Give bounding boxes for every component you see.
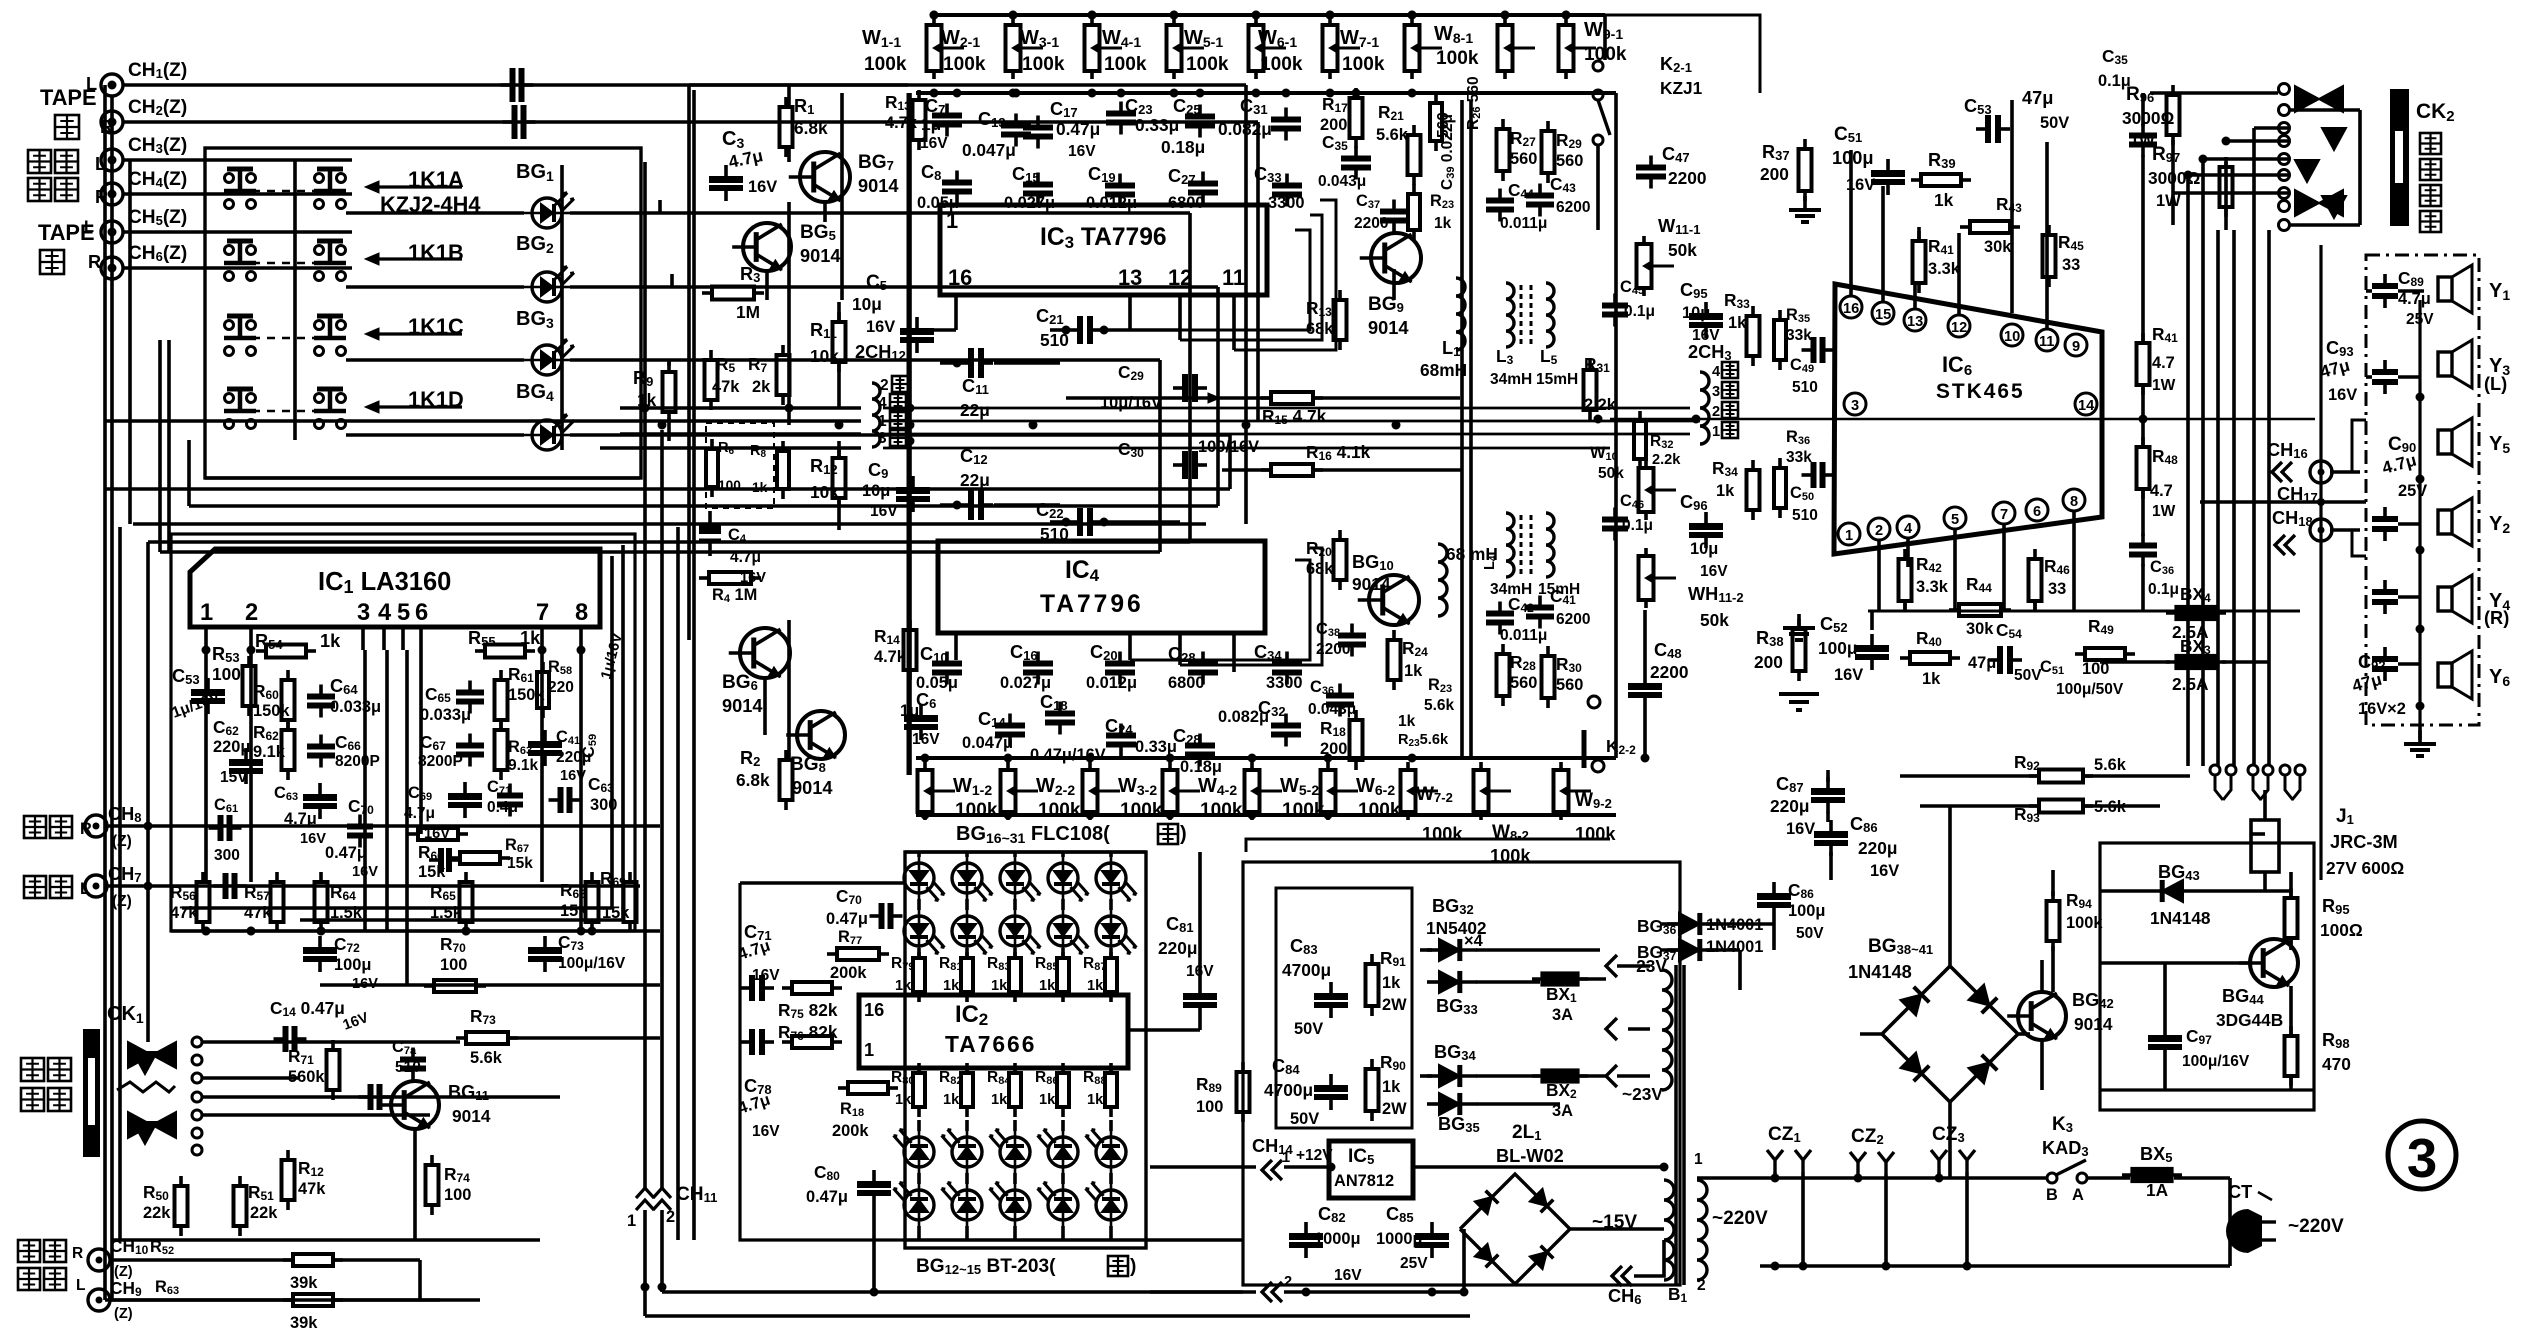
svg-text:(Z): (Z) [112,833,132,850]
svg-text:6: 6 [415,600,428,626]
svg-text:100: 100 [1196,1098,1223,1116]
svg-text:BL-W02: BL-W02 [1496,1146,1564,1166]
svg-text:0.1μ: 0.1μ [2148,581,2179,598]
capacitor C54 [1988,658,2000,662]
capacitor C_{33} [1285,174,1289,186]
capacitor C89 [2383,274,2387,286]
wire top right link [1566,15,1760,93]
pin 7 IC6b [1993,502,2015,524]
capacitor C66 [319,735,323,747]
resistor R19 [1338,290,1342,300]
wire led col2 3 [1061,1068,1065,1073]
fuse BX3 [2166,660,2226,664]
wire cz drops [1773,1172,1777,1178]
svg-text:1k: 1k [895,1092,912,1108]
wire ic6 pin ups [1849,150,1853,296]
svg-text:30k: 30k [1984,238,2012,256]
ground speaker [2418,726,2422,740]
potentiometer W7-2 [1406,762,1410,770]
pin 15 IC6 [1872,302,1894,324]
resistor R88 [1109,1063,1113,1073]
wire speaker caps [2398,289,2424,293]
wire box right edge [840,93,844,300]
mic plug triangles1 [128,1042,152,1068]
wire top bus2 [916,91,1616,95]
potentiometer W4-1 [1172,17,1176,25]
capacitor C_{28b} [1198,734,1202,746]
resistor R13 [917,90,921,100]
svg-text:15: 15 [1875,307,1891,323]
svg-text:2W: 2W [1382,996,1407,1014]
wire IC4 loops [1130,560,1310,660]
tap 23V mid [1606,1018,1617,1040]
svg-text:4: 4 [1712,364,1721,380]
capacitor C73 [543,936,547,947]
svg-text:100: 100 [212,664,241,684]
svg-text:0.47μ/16V: 0.47μ/16V [1030,746,1106,764]
svg-text:27V 600Ω: 27V 600Ω [2326,858,2404,878]
winding 23V [1662,970,1672,1090]
wire c80 drop [872,1206,876,1292]
resistor R89 [1241,1062,1245,1072]
pin 1 IC6b [1838,523,1860,545]
svg-text:1k: 1k [320,631,341,651]
svg-text:16V: 16V [1786,820,1815,838]
svg-text:100μ/50V: 100μ/50V [2056,681,2124,698]
wire IC4 pins [954,633,958,660]
svg-text:16V×2: 16V×2 [2358,700,2406,718]
svg-text:100k: 100k [1575,824,1616,844]
svg-text:(L): (L) [2484,374,2507,394]
resistor R65 [464,872,468,882]
wire c48 [1643,610,1647,672]
svg-text:1k: 1k [991,978,1008,994]
resistor R55 [475,649,485,653]
wire 220 bus top [1697,1176,2046,1180]
inductor L6 [1546,513,1554,577]
LED BG13a [952,1137,982,1167]
capacitor C_{14} [1008,714,1012,726]
resistor R45 [2047,225,2051,235]
capacitor C_{8} [955,171,959,183]
svg-text:50V: 50V [1796,925,1824,942]
capacitor C_{25} [1198,105,1202,117]
potentiometer W3-2 [1088,762,1092,770]
connector CH6 [101,257,123,279]
potentiometer W9-2 [1559,762,1563,770]
svg-text:220μ: 220μ [1770,796,1809,816]
svg-text:5.6k: 5.6k [1424,697,1455,714]
switch 1K1B right [315,272,324,281]
svg-text:8: 8 [2070,494,2078,510]
resistor R54 [256,649,266,653]
switch 1K1A right [315,200,324,209]
capacitor C38 [1350,624,1354,636]
svg-text:100k: 100k [1200,800,1243,821]
resistor R23 [1412,184,1416,194]
label tape-out hanzi [55,115,79,139]
wire ic2 right [1128,1028,1200,1032]
capacitor C_{20} [1118,652,1122,664]
inductor L2 [1438,544,1447,616]
capacitor C_{28} [1201,652,1205,664]
svg-text:1k: 1k [1728,314,1747,332]
pin 4 IC6b [1897,516,1919,538]
transistor BG7 [800,152,850,202]
potentiometer W2-2 [1006,762,1010,770]
svg-text:50V: 50V [1290,1110,1319,1128]
svg-text:220μ: 220μ [213,738,250,756]
svg-text:560: 560 [1510,150,1537,168]
svg-text:100μ/16V: 100μ/16V [558,955,626,972]
svg-text:1k: 1k [752,480,768,495]
label phono hanzi [24,816,46,838]
svg-text:16V: 16V [2328,386,2357,404]
pin 13 IC6 [1904,309,1926,331]
LED BG2 [532,272,562,302]
capacitor C90 [2383,507,2387,519]
svg-text:~23V: ~23V [1622,1084,1663,1104]
svg-text:16V: 16V [424,826,450,842]
svg-text:0.033μ: 0.033μ [420,706,471,724]
resistor R16 [1261,468,1271,472]
relay contacts [2210,765,2220,775]
svg-text:0.047μ: 0.047μ [962,734,1013,752]
svg-text:100μ: 100μ [1788,902,1825,920]
resistor R82 [965,1063,969,1073]
svg-text:200: 200 [1320,740,1347,758]
capacitor C_{7} [945,104,949,116]
wire r15 [1066,396,1270,400]
svg-text:16V: 16V [870,503,898,520]
svg-text:50k: 50k [1668,240,1697,260]
capacitor C72 [318,936,322,947]
wire c12 [940,503,958,507]
svg-text:16V: 16V [752,967,780,984]
resistor R5 [709,350,713,360]
svg-text:2: 2 [1697,1277,1706,1294]
connector CH5 [101,221,123,243]
resistor R96 [2171,85,2175,95]
wire led3 [346,358,524,362]
label CH11 [636,1188,654,1198]
svg-text:50k: 50k [1598,465,1624,482]
wire bundle v2 [676,527,680,1240]
svg-text:9014: 9014 [2074,1014,2113,1034]
svg-text:5: 5 [1951,512,1959,528]
svg-text:15k: 15k [560,902,588,920]
wire left col [146,931,150,1042]
capacitor C_{16} [1036,652,1040,664]
resistor R41b [2141,333,2145,343]
wire bottom rail [2100,1264,2230,1268]
svg-text:(Z): (Z) [112,893,132,910]
transistor BG42 [2018,992,2066,1040]
svg-text:(Z): (Z) [114,1306,133,1322]
svg-text:30k: 30k [1966,620,1994,638]
svg-text:3DG44B: 3DG44B [2216,1010,2283,1030]
resistor R24 [1392,630,1396,640]
wire led top rail [905,850,1146,854]
svg-text:0.082μ: 0.082μ [1218,119,1272,139]
wire bg9 links [1392,269,1396,300]
svg-text:TA7666: TA7666 [945,1031,1036,1057]
resistor R87 [1109,948,1113,958]
svg-text:9014: 9014 [1368,318,1409,338]
potentiometer W2-1 [1011,17,1015,25]
svg-text:100k: 100k [864,54,907,75]
switch K2-2 [1588,696,1600,708]
svg-text:2200: 2200 [1354,215,1388,232]
relay box [2100,843,2314,1110]
capacitor C70 [870,914,882,918]
wire led col 3 [1061,852,1065,857]
capacitor C29 [1173,386,1185,390]
wire mid bus3 [620,432,861,436]
LED BG19 [1048,863,1078,893]
svg-text:CT: CT [2228,1182,2252,1202]
svg-text:4700μ: 4700μ [1282,960,1331,980]
svg-text:3300: 3300 [1268,194,1304,212]
LED BG14b [1000,1190,1030,1220]
svg-text:1K1C: 1K1C [408,314,464,339]
svg-text:0.082μ: 0.082μ [1218,708,1269,726]
svg-text:220μ: 220μ [1858,838,1897,858]
svg-text:9014: 9014 [792,778,833,798]
svg-text:3300: 3300 [1266,674,1302,692]
svg-text:0.011μ: 0.011μ [1500,627,1547,644]
svg-text:R26 560: R26 560 [1465,76,1483,130]
svg-text:14: 14 [2078,398,2095,414]
svg-text:1K1D: 1K1D [408,387,464,412]
transformer B1 secondary 15V [1664,1180,1674,1280]
resistor R68 [590,872,594,882]
wire c21 [1050,328,1066,332]
svg-text:0.1μ: 0.1μ [1622,517,1653,534]
svg-text:1: 1 [200,600,213,626]
switch 1K1C left [225,347,234,356]
connector CH16 [2310,461,2332,483]
connector CH8 [85,815,107,837]
wire CH3 to box [123,158,352,162]
jack CK2 body [2390,89,2409,226]
wire relay wires [2100,889,2160,893]
wire 220 bus bot [1760,1264,2100,1268]
svg-text:16V: 16V [752,1123,780,1140]
wire bottom long [662,1290,1243,1293]
wire speaker tops [2366,289,2372,293]
capacitor C_{19} [1118,174,1122,186]
wire mic wires [202,1040,460,1044]
diode BG43 [2171,889,2183,893]
svg-text:B: B [2046,1186,2058,1204]
svg-text:33k: 33k [1786,327,1812,344]
svg-text:15V: 15V [220,769,248,786]
potentiometer W3-1 [1090,17,1094,25]
resistor R66 [408,832,418,836]
wire 23V taps [1628,1027,1650,1031]
svg-text:7: 7 [2000,507,2008,523]
svg-text:A: A [2072,1186,2084,1204]
wire led4 [346,433,524,437]
wire to plug [2088,1176,2130,1180]
svg-text:47μ: 47μ [1968,654,1996,672]
resistor R27 [1501,119,1505,129]
wire left bundle v1 [643,162,647,410]
capacitor C12 [959,503,971,507]
svg-text:100k: 100k [943,54,986,75]
wire bundle v3 [692,90,696,1240]
potentiometer W11-1 [1642,236,1646,244]
wire CH2 line [123,120,1258,124]
wire IC1 outer loop [171,534,635,931]
resistor R17 [1354,88,1358,98]
wire r92 links [1900,774,2038,778]
label tape-in hanzi [40,250,64,274]
connector CH9 [88,1289,110,1311]
resistor R91 [1370,954,1374,964]
inductor L5 [1546,283,1554,347]
svg-text:100: 100 [444,1186,471,1204]
svg-text:47k: 47k [244,904,272,922]
resistor R81 [965,948,969,958]
svg-text:4700μ: 4700μ [1264,1080,1313,1100]
diode BG35 [1427,1102,1439,1106]
svg-text:1k: 1k [1434,215,1452,232]
svg-text:560: 560 [1510,674,1537,692]
resistor R73 [456,1036,466,1040]
capacitor C37 [1392,200,1396,212]
svg-text:IC1 LA3160: IC1 LA3160 [318,568,451,597]
wire ic6 pin drops [1877,540,1881,611]
svg-text:1k: 1k [1934,190,1954,210]
outlet CZ2 [1856,1162,1859,1174]
capacitor C65 [468,681,472,693]
resistor R86 [1061,1063,1065,1073]
resistor R11 [837,312,841,322]
svg-text:10μ: 10μ [1690,540,1718,558]
svg-text:2: 2 [880,377,889,394]
resistor R32 [1638,411,1642,421]
gnd C52b [1779,694,1819,710]
svg-text:BG12~15 BT-203(: BG12~15 BT-203( [916,1256,1056,1277]
svg-text:2200: 2200 [1650,662,1688,682]
switch 1K1D left [225,420,234,429]
svg-text:2: 2 [1712,404,1720,420]
resistor R60 [286,670,290,680]
wire box top [689,83,908,87]
core L4L6 [1520,515,1523,575]
wire led col 2 [1013,852,1017,857]
svg-text:JRC-3M: JRC-3M [2330,832,2398,852]
potentiometer W5-2 [1250,762,1254,770]
capacitor on CH1 line [501,83,513,87]
mic plug triangles2 [128,1112,152,1138]
svg-text:2.2k: 2.2k [1652,452,1681,468]
capacitor C68 [318,783,322,794]
svg-text:4.7μ: 4.7μ [730,549,761,566]
svg-text:100k: 100k [1104,54,1147,75]
svg-text:4.7k: 4.7k [885,114,918,132]
LED BG16 [904,863,934,893]
svg-text:16V: 16V [1700,563,1728,580]
svg-text:5.6k: 5.6k [470,1049,503,1067]
potentiometer W6-2 [1326,762,1330,770]
wire vertical pair right [1460,100,1464,758]
svg-text:1000μ: 1000μ [1314,1230,1361,1248]
diode BG36 [1667,922,1679,926]
wire dashed link [252,410,316,413]
svg-text:~220V: ~220V [1712,1208,1768,1229]
resistor R18b [838,1086,848,1090]
capacitor C21 [1068,328,1080,332]
pin 12 IC6 [1948,315,1970,337]
capacitor C86 [1772,882,1776,893]
transistor BG9 [1371,233,1421,283]
resistor R39 [1911,178,1921,182]
capacitor C53 [206,678,210,689]
wire IC3 pin drops [1128,295,1132,330]
wire eq right [1614,93,1618,758]
capacitor C43 [1538,184,1542,196]
svg-text:100: 100 [440,956,467,974]
resistor R90 [1370,1059,1374,1069]
transistor BG11 [391,1081,439,1129]
resistor R92 [2029,774,2039,778]
capacitor C51 [1886,159,1890,170]
svg-text:6.8k: 6.8k [736,770,770,790]
fuse BX1 [1532,977,1588,981]
svg-text:2.2k: 2.2k [1584,396,1617,414]
svg-text:150k: 150k [253,702,290,720]
svg-text:16: 16 [864,1000,884,1020]
transformer B1 primary 220V [1697,1180,1707,1280]
connector CH10 [88,1249,110,1271]
wire IC3 loops [1130,230,1310,330]
svg-text:1: 1 [864,1040,874,1060]
label phono hanzi2 [24,876,46,898]
potentiometer W6-1 [1328,17,1332,25]
svg-text:16V: 16V [300,831,326,847]
wire power inner box [1276,888,1412,1128]
resistor R50 [179,1176,183,1186]
svg-text:8200P: 8200P [418,753,463,770]
capacitor C70b [358,815,362,827]
svg-text:0.47μ: 0.47μ [1056,119,1100,139]
svg-text:4.7: 4.7 [2150,482,2173,500]
transistor BG10 [1369,575,1419,625]
svg-text:R: R [88,252,101,272]
resistor R7 [781,345,785,355]
pin 6 IC6b [2026,499,2048,521]
resistor R62 [286,720,290,730]
capacitor C35r [2141,124,2145,136]
svg-text:0.043μ: 0.043μ [1308,701,1356,718]
svg-text:4.7: 4.7 [2152,354,2175,372]
wire box around led area [740,883,905,1240]
svg-text:9.1k: 9.1k [253,743,286,761]
svg-text:9014: 9014 [1352,574,1391,594]
resistor R52h [283,1258,293,1262]
wire CH5 to box [123,230,352,234]
potentiometer WH11-2 [1644,548,1648,556]
svg-text:300: 300 [590,796,617,814]
svg-text:8200P: 8200P [335,753,380,770]
wire 1616 hook [1246,839,1610,852]
capacitor C96 [1704,512,1708,523]
wire bg42 [2040,960,2044,992]
capacitor C_{15} [1036,173,1040,185]
